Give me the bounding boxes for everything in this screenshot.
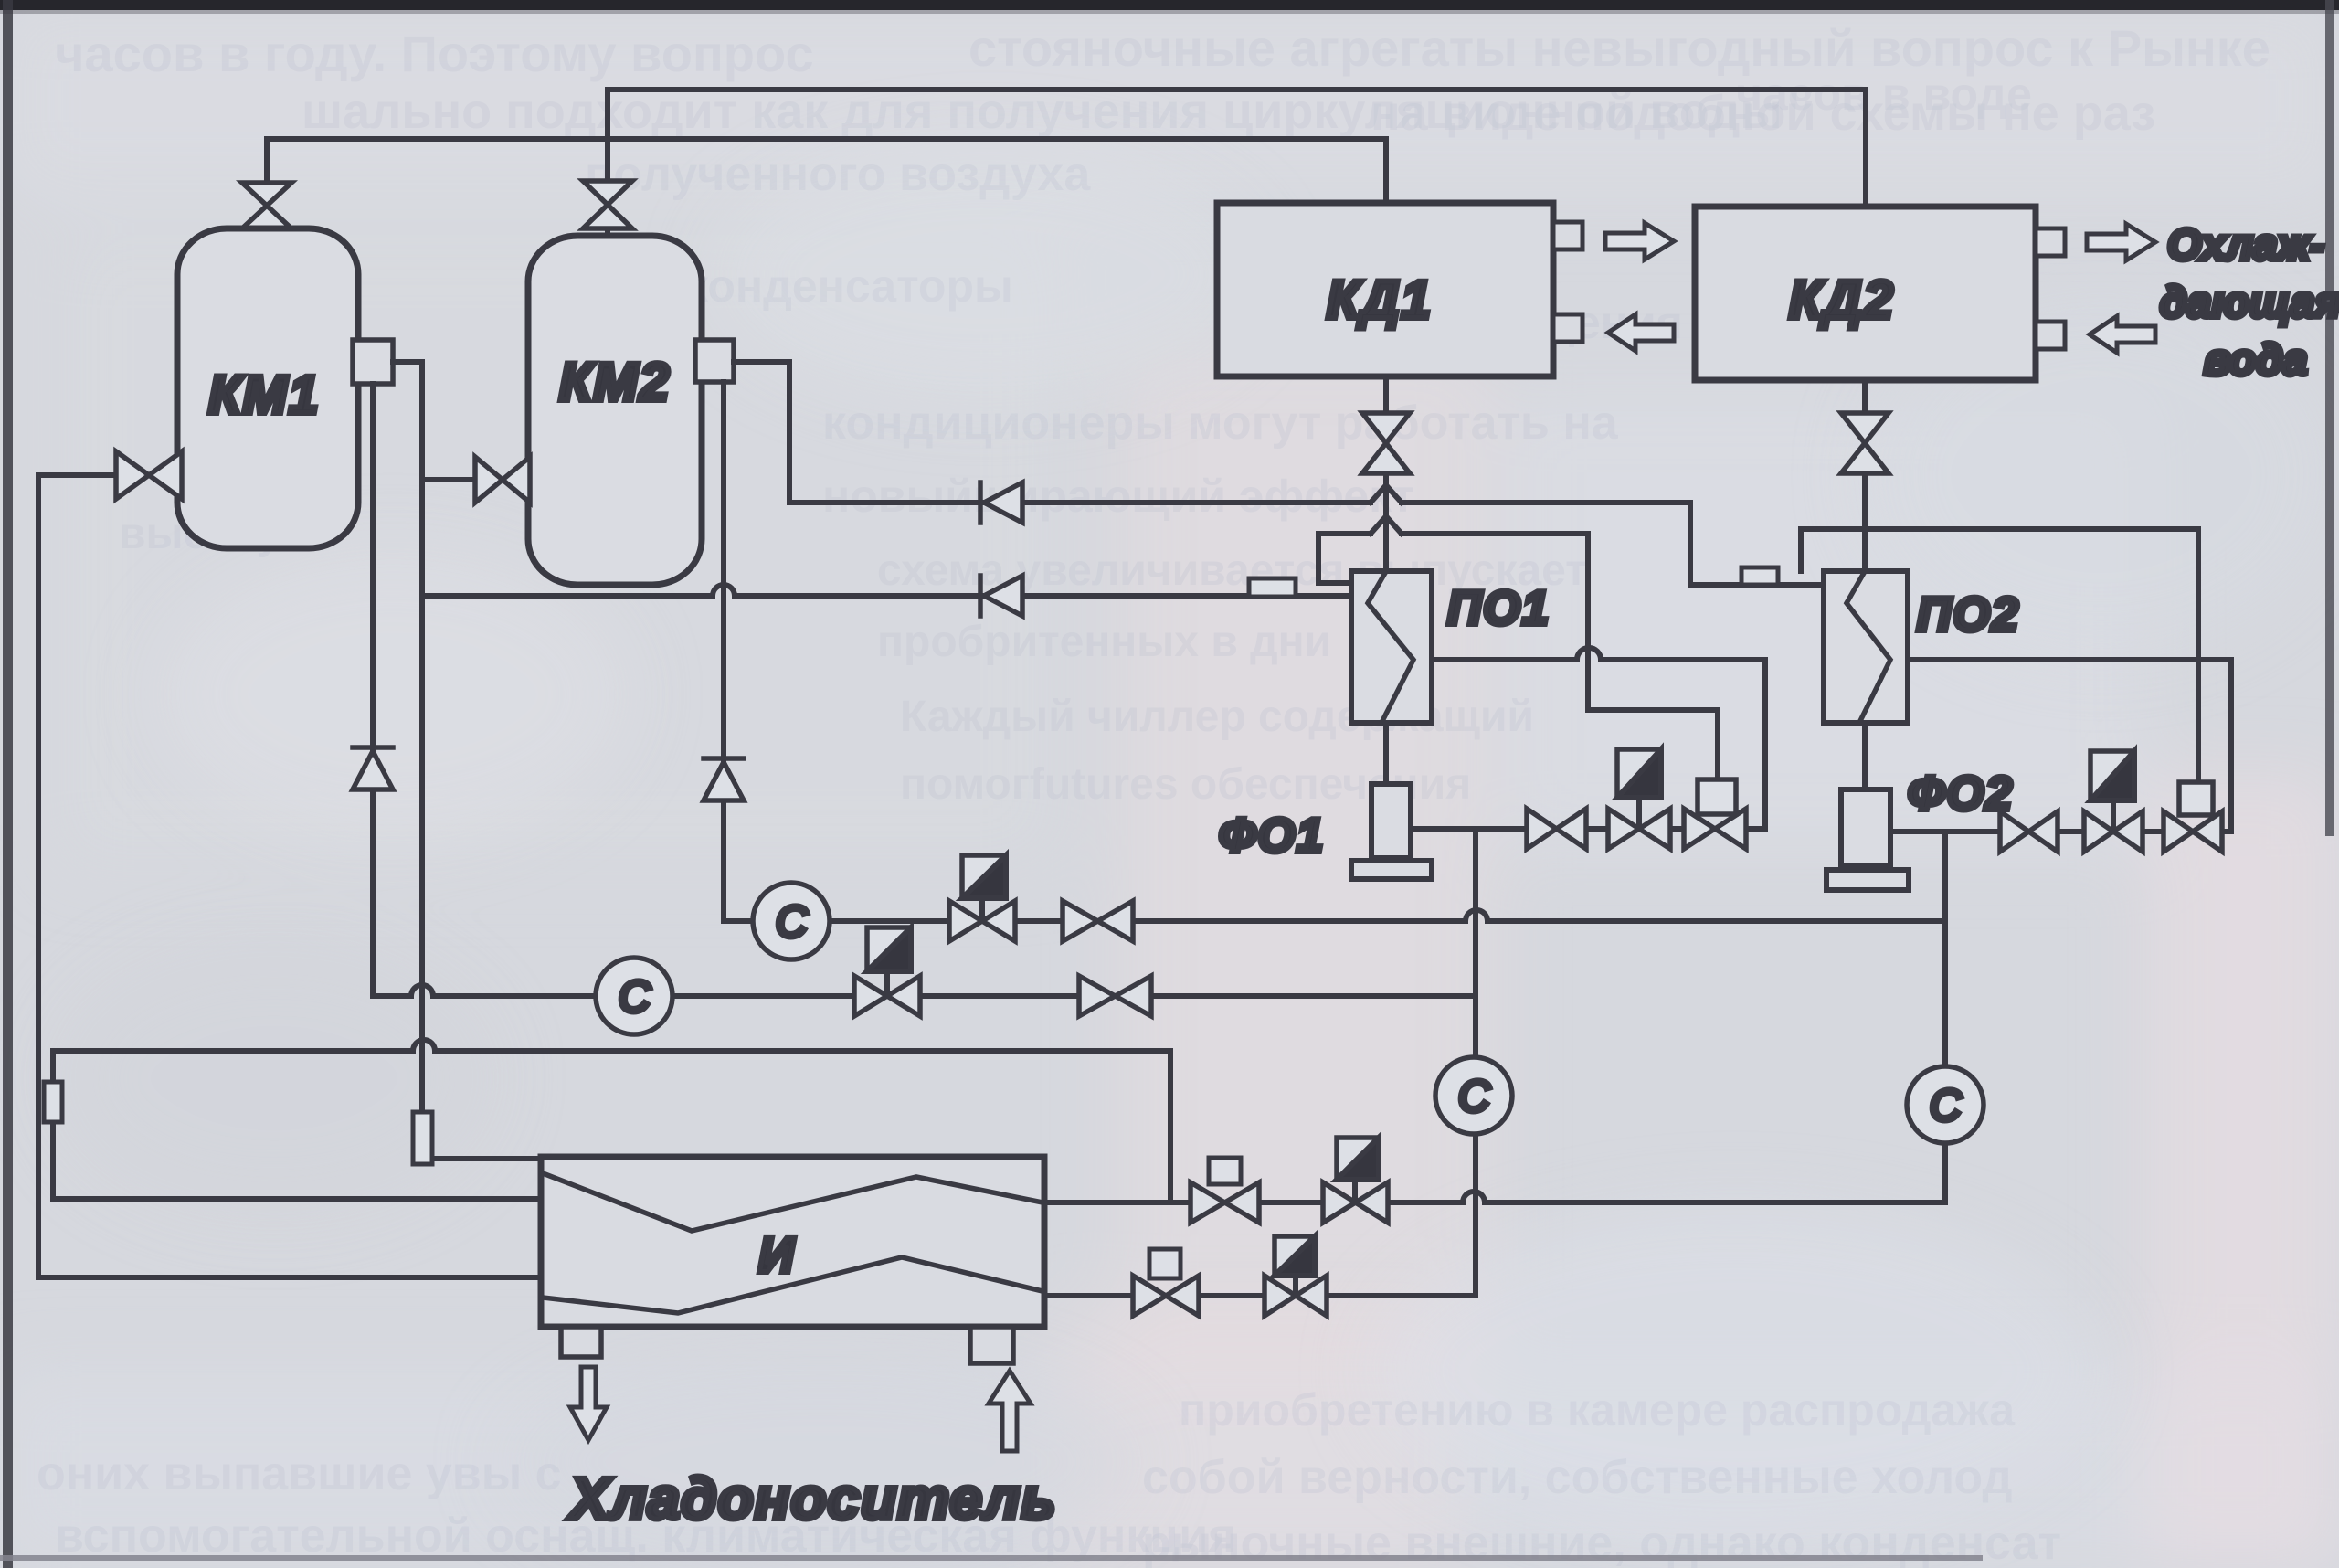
arrow coolant in	[989, 1371, 1031, 1451]
wire suction return y1008	[724, 382, 1945, 921]
wire KD2 bottom vertical	[1862, 380, 1868, 573]
wire FO2 stem	[1862, 723, 1868, 789]
check valve on x408	[353, 747, 393, 789]
svg-text:новыйширающий эффект: новыйширающий эффект	[822, 471, 1414, 522]
svg-text:ПО1: ПО1	[1447, 582, 1551, 635]
wire hot gas line y652 to PO1	[422, 585, 1351, 596]
arrow coolant out	[570, 1367, 607, 1440]
valve V2 above KM2	[583, 181, 632, 228]
wire suction return y1090	[373, 384, 1476, 996]
svg-text:С: С	[776, 898, 808, 947]
svg-text:КМ2: КМ2	[559, 353, 671, 412]
arrow KD2 water out	[2087, 224, 2155, 260]
heat exchanger PO2	[1824, 571, 1908, 723]
wire PO1 outlet y722	[1432, 648, 1765, 829]
arrow KD1 water in	[1608, 314, 1674, 351]
svg-text:часов в году. Поэтому вопрос: часов в году. Поэтому вопрос	[55, 25, 814, 82]
svg-text:С: С	[619, 973, 651, 1022]
wire row2 from evaporator	[1044, 1293, 1476, 1298]
shutoff valve FO2 line	[2000, 811, 2058, 852]
svg-text:Охлаж-: Охлаж-	[2167, 221, 2324, 270]
valve V4 between KM1 and KM2	[475, 457, 530, 503]
svg-text:КМ1: КМ1	[208, 366, 320, 425]
valve V6 below KD2	[1841, 413, 1889, 473]
wire KM1 port to vertical x462 down to evaporator top	[393, 362, 541, 1159]
control valve y1008	[949, 901, 1015, 941]
wire FO1 valve line y907	[1411, 826, 1765, 832]
svg-text:приобретению в камере распрода: приобретению в камере распродажа	[1179, 1384, 2016, 1436]
wire left bracket to evaporator upper line	[53, 1051, 541, 1199]
wire KM2 port right to y550	[734, 362, 789, 503]
control valve FO1 line	[1608, 809, 1670, 849]
filter FO2	[1841, 789, 1890, 866]
svg-text:С: С	[1930, 1082, 1962, 1130]
port KD1 out	[1553, 222, 1582, 249]
wire KM1 suction from left valve down to evaporator	[38, 475, 541, 1277]
wire discharge line KM1 to KD1	[267, 139, 1386, 236]
svg-text:С: С	[1458, 1073, 1490, 1121]
condenser KD2	[1695, 207, 2036, 380]
bonnet valve FO2 line	[2164, 811, 2222, 852]
tab on y652 before PO1	[1249, 578, 1296, 597]
svg-text:собой верности, собственные хо: собой верности, собственные холод	[1142, 1451, 2013, 1504]
wire row1 from evaporator	[1044, 1192, 1945, 1202]
svg-text:Каждый чиллер содержащий: Каждый чиллер содержащий	[900, 693, 1534, 741]
wire KD1 bottom vertical	[1383, 376, 1389, 573]
wire PO2 vapor branch up and over	[1801, 529, 2198, 782]
tab on x462 vertical	[413, 1112, 432, 1164]
svg-text:дающая: дающая	[2160, 279, 2339, 327]
wire y584 PO1 vapor line	[1318, 534, 1588, 583]
svg-text:кондиционеры могут работать на: кондиционеры могут работать на	[822, 397, 1619, 450]
svg-text:стояночные агрегаты невыгодный: стояночные агрегаты невыгодный вопрос к …	[968, 19, 2270, 77]
bonnet valve FO1 line	[1684, 809, 1746, 849]
page border top	[0, 0, 2339, 10]
C sensor on x2129	[1907, 1066, 1984, 1143]
wire C vertical right x2129	[1942, 832, 1948, 1202]
port KD2 in	[2036, 322, 2065, 349]
bonnet valve row2	[1133, 1276, 1199, 1316]
tab on y640 before PO2	[1741, 567, 1778, 585]
wire liquid line y550 to PO2	[789, 503, 1824, 585]
peak junction at 1517,584	[1371, 516, 1402, 534]
condenser KD1	[1217, 203, 1553, 376]
svg-text:оних выпавшие увы с: оних выпавшие увы с	[37, 1447, 562, 1500]
check valve on y652	[980, 576, 1022, 616]
C sensor on y1090	[596, 958, 672, 1034]
svg-text:конденсаторы: конденсаторы	[685, 260, 1013, 312]
control valve row2	[1265, 1276, 1327, 1316]
compressor KM2	[528, 236, 702, 585]
svg-text:ПО2: ПО2	[1917, 588, 2020, 641]
arrow KD1 water out	[1605, 223, 1674, 260]
wire FO1 stem	[1383, 723, 1389, 784]
check valve on y550	[980, 482, 1022, 523]
tab on left bracket	[44, 1082, 62, 1122]
C sensor on x1615	[1435, 1057, 1512, 1134]
evaporator I	[541, 1157, 1044, 1327]
wire discharge line KM2 to KD2	[608, 90, 1866, 239]
filter FO1	[1371, 784, 1411, 858]
port KM2 right	[695, 340, 734, 382]
stub I left	[561, 1327, 601, 1357]
svg-text:часов в воде: часов в воде	[1736, 69, 2032, 120]
shutoff valve FO1 line	[1527, 809, 1586, 849]
wire PO2 outlet y722	[1908, 660, 2231, 832]
svg-text:И: И	[758, 1228, 795, 1283]
control valve row1	[1323, 1182, 1388, 1223]
svg-text:ФО1: ФО1	[1219, 810, 1325, 863]
page border left	[3, 0, 13, 1568]
compressor KM1	[177, 228, 358, 548]
control valve FO2 line	[2084, 811, 2143, 852]
svg-text:КД2: КД2	[1789, 270, 1895, 330]
page border bottom	[0, 1555, 1983, 1561]
valve V3 left of KM1	[116, 451, 182, 499]
check valve on x792	[704, 758, 744, 800]
shutoff valve y1008	[1063, 901, 1133, 941]
port KM1 right	[353, 340, 393, 384]
svg-text:полученного воздуха: полученного воздуха	[585, 148, 1091, 201]
valve V5 below KD1	[1362, 413, 1410, 473]
stub I right	[970, 1327, 1013, 1363]
peak junction at 1517,550	[1371, 485, 1402, 503]
svg-text:КД1: КД1	[1327, 270, 1433, 330]
svg-text:Хладоноситель: Хладоноситель	[567, 1466, 1056, 1531]
bonnet valve row1	[1191, 1182, 1259, 1223]
wire FO2 valve line y910	[1890, 829, 2231, 834]
svg-text:пробритенных в дни: пробритенных в дни	[877, 618, 1331, 666]
wire FO1 tee vertical x1615	[1473, 829, 1478, 1296]
page border right	[2325, 0, 2334, 836]
port KD1 in	[1553, 314, 1582, 342]
shutoff valve y1090	[1079, 976, 1151, 1016]
control valve y1090	[854, 976, 920, 1016]
heat exchanger PO1	[1351, 571, 1432, 723]
wire bypass y1150 and staircase	[53, 1040, 1170, 1202]
port KD2 out	[2036, 228, 2065, 256]
svg-text:вода: вода	[2204, 336, 2307, 385]
arrow KD2 water in	[2090, 316, 2155, 353]
wire branch to KM2 left valve	[422, 477, 477, 482]
valve V1 above KM1	[242, 183, 291, 228]
C sensor on y1008	[753, 883, 830, 959]
wire x1738 down to FO1 bonnet	[1588, 534, 1718, 779]
